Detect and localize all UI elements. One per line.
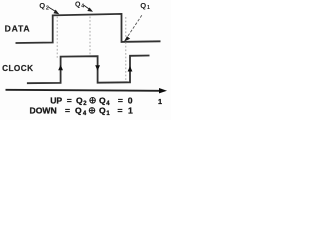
svg-text:=: = [118,105,123,115]
arrow clock falling edge 1 [95,65,100,71]
arrow Q4 pointer [84,5,90,9]
arrow Q1 pointer (long diagonal) [128,15,142,36]
svg-text:DATA: DATA [5,23,31,33]
svg-text:=: = [65,105,70,115]
svg-text:Q: Q [140,1,146,10]
svg-text:Q: Q [75,1,81,8]
svg-text:DOWN: DOWN [30,105,57,115]
arrow clock rising edge 2 [128,66,133,72]
svg-text:2: 2 [46,5,49,11]
label UP equation [30,95,134,117]
axis time [6,90,161,91]
node Q1 sample dashed line [125,17,127,81]
svg-text:Q: Q [99,95,106,105]
svg-text:Q: Q [75,105,82,115]
wire CLOCK waveform [27,56,150,84]
svg-text:Q: Q [99,105,106,115]
svg-text:1: 1 [147,5,150,11]
svg-text:4: 4 [81,4,84,10]
arrow axis head [159,88,167,93]
svg-text:Q: Q [76,95,83,105]
symbol xor 1 [90,98,96,104]
svg-text:Q: Q [39,1,45,10]
svg-text:1: 1 [158,97,162,106]
arrow clock rising edge 1 [58,65,63,71]
svg-text:1: 1 [128,105,133,115]
svg-text:0: 0 [128,95,133,105]
svg-text:CLOCK: CLOCK [2,64,33,73]
svg-text:=: = [67,95,72,105]
svg-text:=: = [118,95,123,105]
svg-text:UP: UP [50,95,62,105]
symbol xor 2 [89,108,95,114]
arrow Q2 pointer [49,7,56,11]
node Q4 sample dashed line [89,17,91,56]
node Q2 sample dashed line [56,17,58,60]
wire DATA waveform [16,14,161,43]
